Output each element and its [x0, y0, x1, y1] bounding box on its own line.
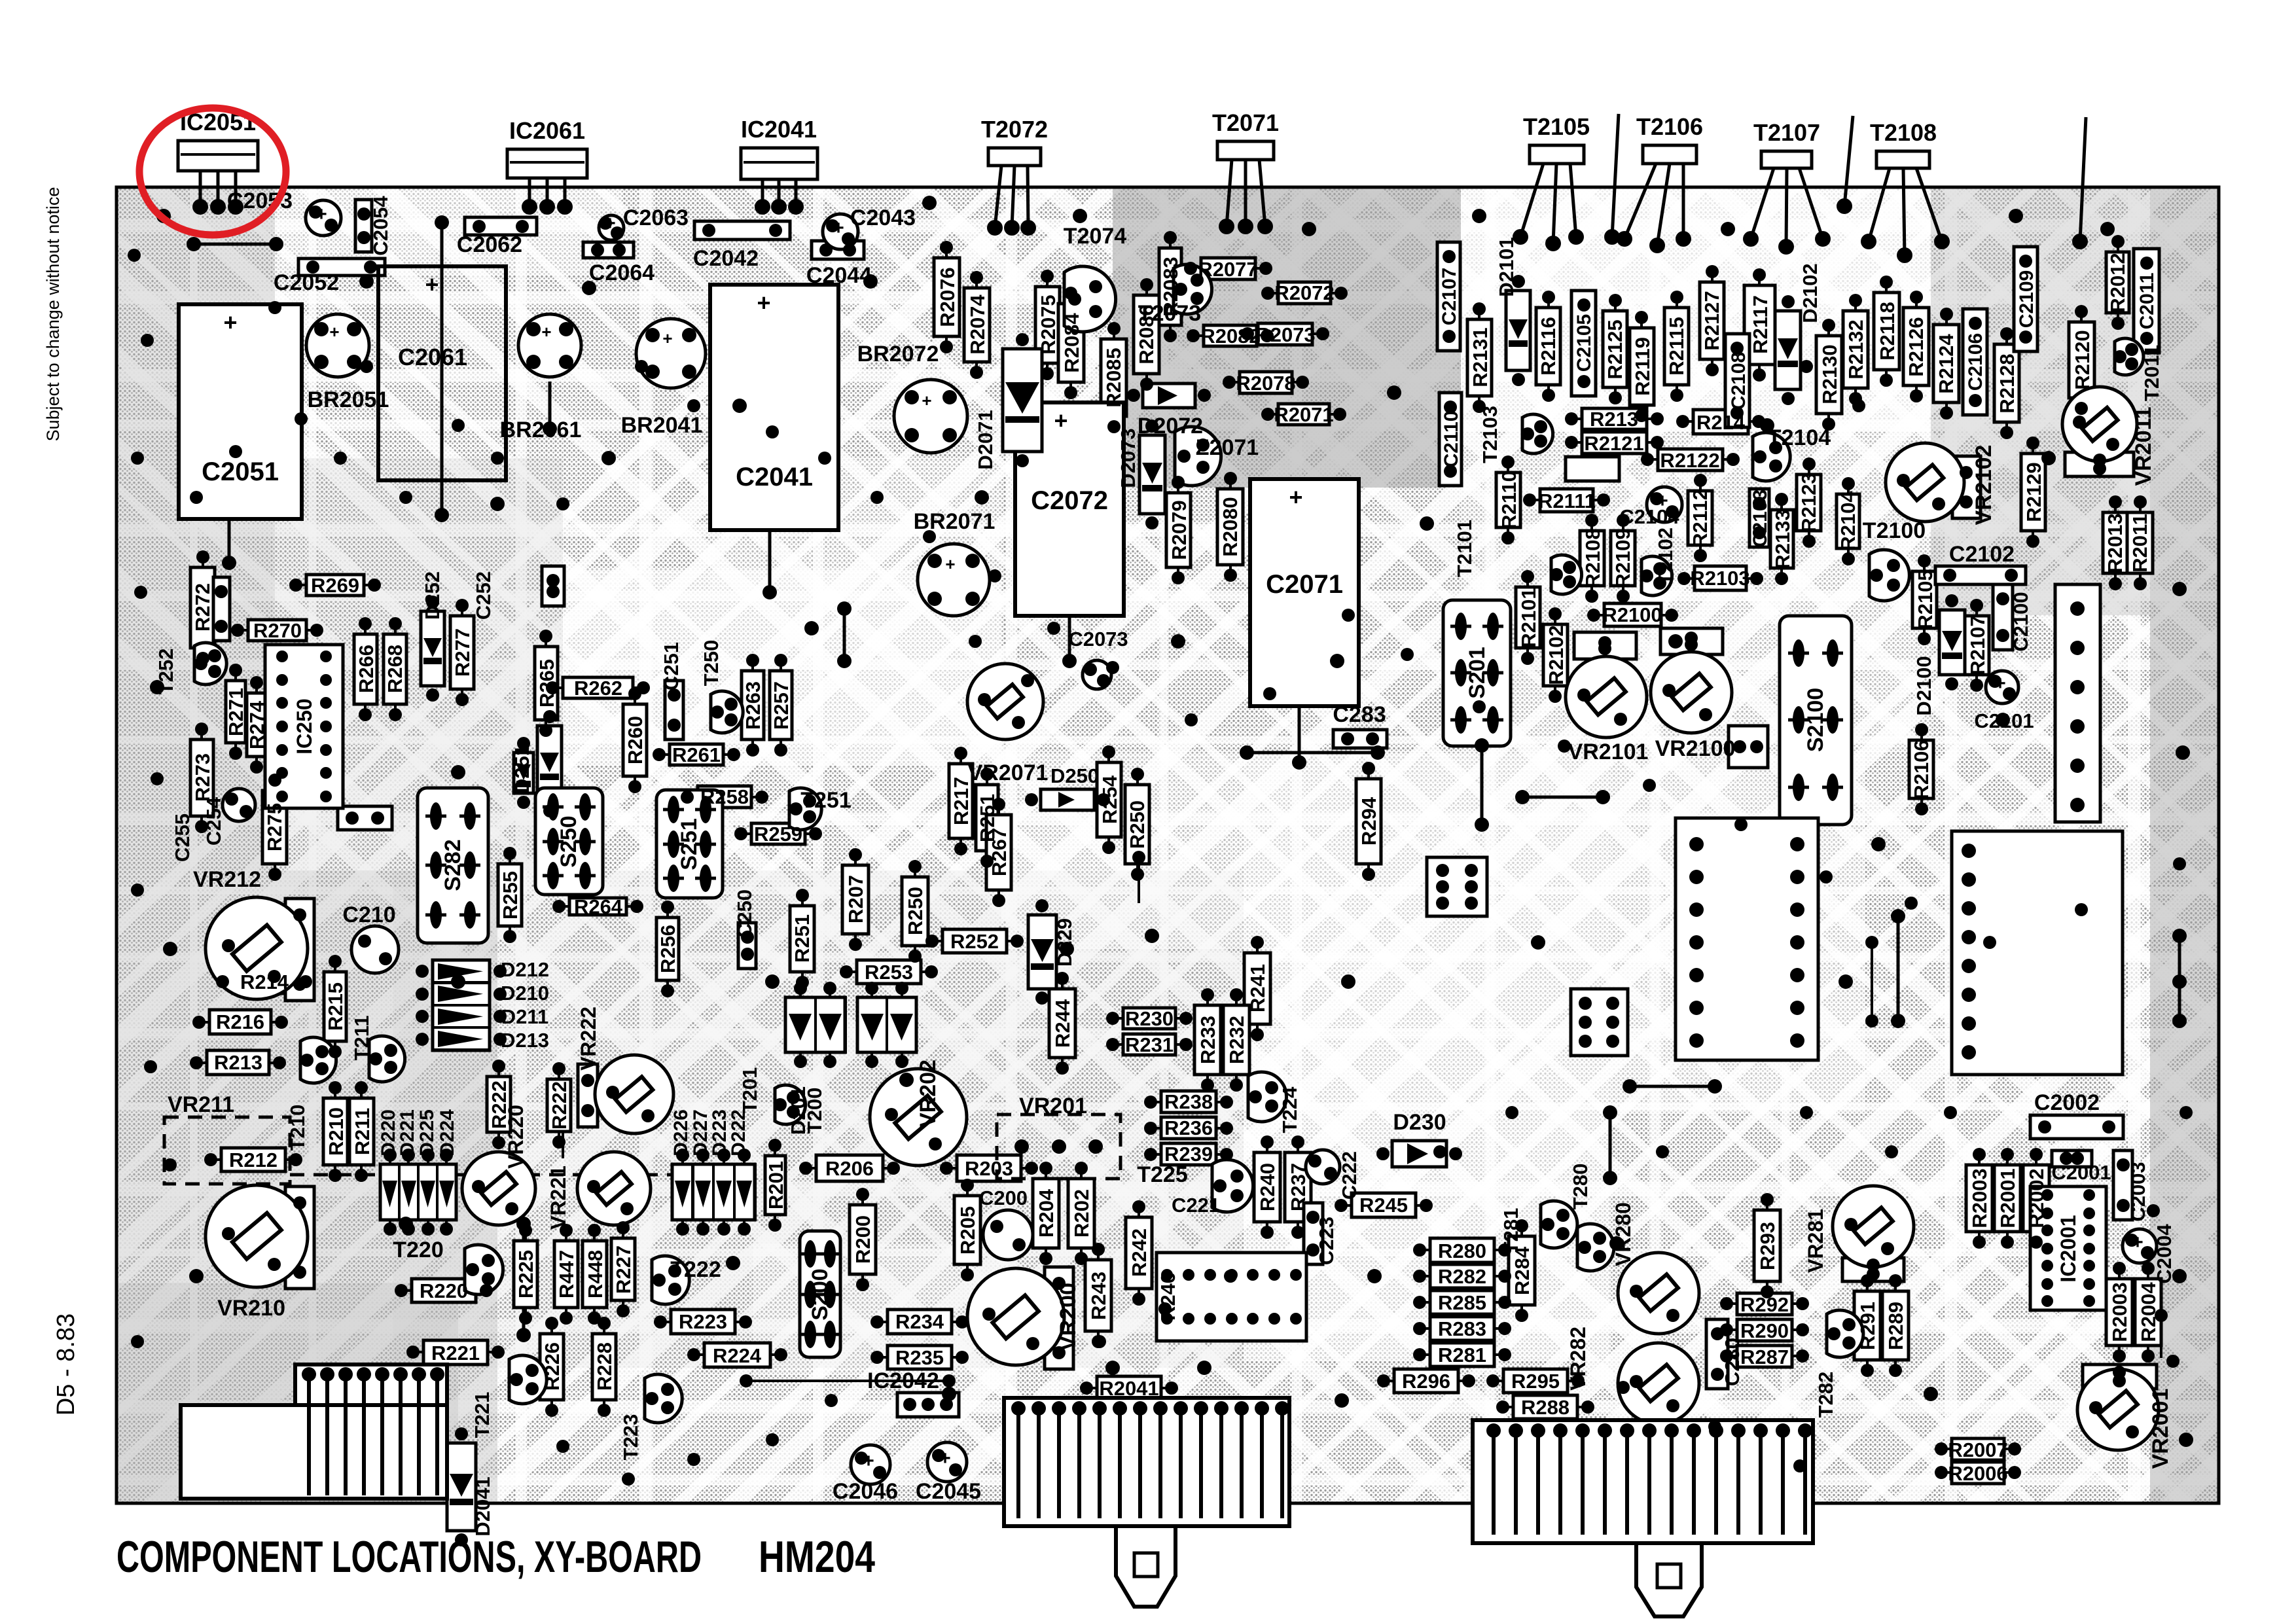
svg-text:+: + — [757, 289, 770, 316]
svg-text:R227: R227 — [612, 1245, 635, 1294]
svg-text:D222: D222 — [728, 1109, 749, 1156]
svg-text:T222: T222 — [670, 1257, 721, 1282]
svg-text:C2102: C2102 — [1949, 542, 2015, 567]
svg-text:R2084: R2084 — [1060, 313, 1083, 373]
svg-text:T2072: T2072 — [981, 116, 1048, 143]
svg-text:C200: C200 — [979, 1186, 1028, 1209]
svg-text:D2073: D2073 — [1117, 428, 1139, 488]
svg-text:+: + — [2132, 1232, 2144, 1253]
svg-text:R2119: R2119 — [1631, 337, 1654, 396]
svg-text:T282: T282 — [1814, 1372, 1837, 1418]
svg-text:R288: R288 — [1521, 1396, 1570, 1419]
svg-text:C2004: C2004 — [2153, 1224, 2176, 1284]
svg-text:T2101: T2101 — [1453, 520, 1476, 577]
svg-text:R246: R246 — [1157, 1272, 1179, 1321]
svg-text:+: + — [833, 217, 844, 239]
svg-text:VR200: VR200 — [1056, 1283, 1081, 1351]
svg-text:+: + — [863, 1450, 874, 1472]
svg-text:VR2011: VR2011 — [2131, 407, 2156, 486]
svg-text:R2007: R2007 — [1948, 1438, 2007, 1461]
svg-text:S200: S200 — [808, 1268, 833, 1320]
svg-text:T2071: T2071 — [1212, 109, 1279, 136]
svg-text:R213: R213 — [214, 1051, 262, 1074]
svg-text:R214: R214 — [240, 971, 289, 993]
svg-text:T2011: T2011 — [2140, 345, 2163, 401]
svg-text:T2102: T2102 — [1654, 527, 1677, 585]
svg-text:R2079: R2079 — [1168, 500, 1191, 560]
svg-text:BR2041: BR2041 — [621, 413, 703, 438]
svg-text:R2078: R2078 — [1236, 372, 1295, 395]
svg-text:C2011: C2011 — [2136, 273, 2158, 330]
svg-text:R201: R201 — [764, 1161, 787, 1209]
svg-text:C283: C283 — [1333, 702, 1386, 727]
svg-text:R268: R268 — [384, 645, 406, 693]
svg-text:R212: R212 — [229, 1149, 278, 1171]
svg-text:T2105: T2105 — [1523, 113, 1590, 140]
svg-text:R245: R245 — [1359, 1194, 1408, 1217]
svg-text:R2128: R2128 — [1996, 353, 2018, 413]
svg-text:R202: R202 — [1070, 1189, 1093, 1238]
svg-text:C2110: C2110 — [1441, 411, 1462, 468]
svg-text:+: + — [425, 271, 439, 298]
svg-text:C2071: C2071 — [1266, 570, 1343, 599]
svg-text:BR2051: BR2051 — [308, 387, 389, 412]
svg-text:R2101: R2101 — [1517, 588, 1540, 647]
svg-text:C2062: C2062 — [457, 232, 522, 257]
svg-text:R214: R214 — [1696, 411, 1746, 434]
svg-text:R243: R243 — [1087, 1272, 1110, 1320]
svg-text:R2076: R2076 — [936, 267, 959, 327]
svg-text:R287: R287 — [1740, 1346, 1789, 1368]
svg-text:R290: R290 — [1740, 1319, 1789, 1342]
svg-text:R230: R230 — [1125, 1007, 1174, 1030]
svg-text:VR202: VR202 — [916, 1060, 941, 1128]
svg-text:T210: T210 — [286, 1105, 309, 1151]
svg-text:C2103: C2103 — [1749, 490, 1771, 547]
svg-text:R2108: R2108 — [1581, 528, 1604, 588]
svg-text:C2002: C2002 — [2034, 1090, 2100, 1115]
svg-text:R2124: R2124 — [1935, 334, 1958, 394]
svg-text:C2052: C2052 — [274, 270, 339, 295]
svg-text:VR281: VR281 — [1804, 1209, 1827, 1273]
svg-text:C2061: C2061 — [398, 344, 467, 370]
svg-text:C2041: C2041 — [736, 463, 813, 491]
svg-text:R2082: R2082 — [1200, 325, 1260, 348]
svg-text:C280: C280 — [1721, 1338, 1744, 1386]
svg-text:T224: T224 — [1278, 1086, 1301, 1133]
svg-text:BR2061: BR2061 — [500, 418, 582, 442]
svg-text:R262: R262 — [574, 677, 622, 700]
svg-text:R237: R237 — [1287, 1163, 1310, 1211]
svg-text:R242: R242 — [1128, 1228, 1151, 1277]
svg-text:R2002: R2002 — [2025, 1168, 2048, 1228]
svg-text:T221: T221 — [471, 1392, 493, 1438]
svg-text:R270: R270 — [253, 619, 302, 642]
svg-text:+: + — [939, 1448, 951, 1469]
svg-text:T281: T281 — [1499, 1208, 1522, 1255]
svg-text:VR280: VR280 — [1611, 1202, 1635, 1266]
svg-text:C2045: C2045 — [916, 1479, 981, 1504]
svg-text:R203: R203 — [965, 1157, 1013, 1180]
svg-text:VR211: VR211 — [168, 1092, 234, 1117]
svg-text:+: + — [945, 554, 955, 574]
svg-text:R273: R273 — [191, 753, 214, 802]
svg-text:R264: R264 — [574, 895, 623, 918]
svg-text:C2003: C2003 — [2126, 1162, 2149, 1221]
svg-text:VR212: VR212 — [193, 867, 261, 892]
svg-text:R2001: R2001 — [1996, 1168, 2019, 1228]
svg-text:T2107: T2107 — [1753, 119, 1820, 146]
svg-text:R2132: R2132 — [1844, 319, 1867, 379]
svg-text:COMPONENT LOCATIONS, XY-BOARD: COMPONENT LOCATIONS, XY-BOARD — [117, 1532, 702, 1582]
svg-text:R2121: R2121 — [1584, 432, 1643, 455]
svg-text:C2109: C2109 — [2016, 270, 2037, 328]
svg-text:R2117: R2117 — [1749, 295, 1772, 354]
svg-text:C2108: C2108 — [1728, 352, 1749, 410]
svg-text:R2074: R2074 — [966, 294, 989, 355]
svg-text:T200: T200 — [803, 1088, 826, 1134]
svg-text:R251: R251 — [791, 914, 814, 963]
svg-text:R2112: R2112 — [1689, 489, 1712, 548]
svg-text:R2012: R2012 — [2106, 253, 2129, 312]
svg-text:R289: R289 — [1884, 1302, 1907, 1350]
svg-text:R2102: R2102 — [1545, 625, 1568, 685]
svg-text:R292: R292 — [1740, 1293, 1789, 1316]
svg-text:T2103: T2103 — [1479, 406, 1501, 463]
svg-text:T2100: T2100 — [1863, 518, 1926, 543]
svg-text:R254: R254 — [1098, 775, 1121, 824]
svg-text:R282: R282 — [1438, 1265, 1486, 1288]
svg-text:R204: R204 — [1035, 1188, 1058, 1238]
svg-text:D2102: D2102 — [1799, 263, 1821, 323]
svg-text:VR2102: VR2102 — [1971, 445, 1996, 526]
svg-text:R267: R267 — [988, 828, 1011, 876]
svg-text:C2063: C2063 — [623, 205, 689, 230]
svg-text:C2054: C2054 — [369, 196, 392, 256]
svg-text:R2110: R2110 — [1498, 471, 1520, 529]
svg-text:R258: R258 — [700, 785, 749, 808]
svg-text:R2120: R2120 — [2071, 330, 2094, 389]
svg-text:+: + — [922, 391, 931, 410]
svg-text:C2042: C2042 — [693, 246, 759, 271]
svg-text:R2109: R2109 — [1611, 528, 1634, 588]
svg-text:R228: R228 — [593, 1342, 616, 1391]
svg-text:C2043: C2043 — [850, 205, 916, 230]
svg-text:+: + — [604, 213, 616, 234]
svg-text:R283: R283 — [1438, 1317, 1486, 1340]
svg-text:R2085: R2085 — [1102, 348, 1125, 407]
svg-text:C252: C252 — [472, 571, 495, 620]
svg-text:R241: R241 — [1246, 964, 1269, 1012]
svg-text:+: + — [541, 322, 551, 342]
svg-text:R255: R255 — [499, 871, 522, 919]
svg-text:D226: D226 — [670, 1109, 692, 1156]
svg-text:R222: R222 — [548, 1081, 571, 1130]
svg-text:R2072: R2072 — [1274, 281, 1334, 304]
svg-text:R256: R256 — [656, 925, 679, 973]
svg-text:R233: R233 — [1196, 1016, 1219, 1064]
svg-text:R225: R225 — [514, 1250, 537, 1298]
svg-text:D252: D252 — [421, 571, 444, 620]
svg-text:R293: R293 — [1756, 1222, 1779, 1270]
svg-text:+: + — [1054, 407, 1067, 434]
svg-text:R269: R269 — [311, 574, 359, 597]
svg-text:+: + — [315, 204, 327, 225]
svg-text:R207: R207 — [844, 875, 867, 923]
svg-text:T2074: T2074 — [1064, 224, 1126, 249]
svg-text:C251: C251 — [660, 642, 683, 690]
svg-text:D2041: D2041 — [471, 1476, 494, 1536]
svg-text:R2122: R2122 — [1660, 449, 1719, 472]
svg-text:C2107: C2107 — [1439, 268, 1460, 325]
svg-text:T2104: T2104 — [1768, 425, 1831, 450]
svg-text:R2118: R2118 — [1876, 302, 1899, 361]
svg-text:R266: R266 — [355, 645, 378, 693]
svg-text:R2080: R2080 — [1219, 497, 1242, 556]
svg-text:R448: R448 — [584, 1250, 607, 1298]
svg-text:+: + — [662, 329, 672, 348]
svg-text:R2100: R2100 — [1602, 603, 1662, 626]
svg-text:R206: R206 — [825, 1157, 874, 1180]
svg-text:R215: R215 — [324, 982, 347, 1031]
svg-text:R2115: R2115 — [1665, 317, 1688, 376]
svg-text:T2106: T2106 — [1636, 113, 1703, 140]
svg-text:+: + — [1994, 673, 2006, 694]
svg-text:D250: D250 — [1050, 764, 1099, 787]
svg-text:S2100: S2100 — [1803, 688, 1828, 752]
svg-text:R224: R224 — [713, 1344, 762, 1367]
svg-text:R252: R252 — [950, 930, 999, 953]
svg-text:+: + — [223, 309, 237, 336]
svg-text:C223: C223 — [1315, 1217, 1338, 1265]
svg-text:IC2061: IC2061 — [509, 117, 585, 144]
svg-text:R2041: R2041 — [1099, 1377, 1158, 1400]
svg-text:R2129: R2129 — [2022, 462, 2045, 522]
svg-text:C250: C250 — [733, 889, 756, 938]
svg-text:D211: D211 — [501, 1005, 548, 1028]
svg-text:S282: S282 — [440, 839, 465, 891]
svg-text:C222: C222 — [1338, 1151, 1361, 1200]
svg-text:+: + — [1289, 484, 1302, 510]
svg-text:VR222: VR222 — [577, 1007, 600, 1071]
svg-text:R231: R231 — [1125, 1033, 1174, 1056]
svg-text:R2111: R2111 — [1538, 490, 1596, 512]
svg-text:R260: R260 — [624, 716, 647, 764]
svg-text:R2103: R2103 — [1690, 567, 1749, 590]
svg-text:R213: R213 — [1590, 408, 1638, 431]
svg-text:R2077: R2077 — [1198, 258, 1257, 281]
svg-text:C2101: C2101 — [1974, 709, 2034, 732]
svg-text:R447: R447 — [555, 1250, 578, 1298]
svg-text:T251: T251 — [800, 788, 852, 813]
svg-text:R232: R232 — [1225, 1016, 1248, 1064]
svg-text:R240: R240 — [1256, 1163, 1279, 1211]
svg-text:R294: R294 — [1357, 796, 1380, 846]
svg-text:D251: D251 — [511, 745, 533, 793]
svg-text:S251: S251 — [677, 818, 702, 870]
svg-text:R2116: R2116 — [1537, 317, 1560, 376]
svg-text:R221: R221 — [431, 1342, 480, 1364]
svg-text:T225: T225 — [1137, 1162, 1188, 1187]
svg-text:R205: R205 — [956, 1206, 979, 1255]
svg-text:VR2001: VR2001 — [2148, 1389, 2173, 1469]
svg-text:IC2001: IC2001 — [2056, 1215, 2080, 1282]
svg-text:R250: R250 — [1126, 800, 1149, 849]
svg-text:R2071: R2071 — [1274, 403, 1333, 426]
svg-text:VR2101: VR2101 — [1568, 740, 1649, 764]
svg-text:R216: R216 — [216, 1010, 264, 1033]
svg-text:C2104: C2104 — [1619, 505, 1679, 528]
svg-text:C221: C221 — [1172, 1194, 1220, 1217]
svg-text:R2013: R2013 — [2104, 513, 2126, 573]
svg-text:R2125: R2125 — [1604, 319, 1626, 379]
svg-text:R272: R272 — [191, 583, 214, 632]
svg-text:VR201: VR201 — [1019, 1094, 1087, 1118]
svg-text:VR282: VR282 — [1566, 1327, 1590, 1391]
svg-text:R2123: R2123 — [1797, 473, 1820, 532]
svg-text:R2127: R2127 — [1700, 291, 1723, 350]
svg-text:R238: R238 — [1164, 1090, 1213, 1113]
svg-text:T250: T250 — [700, 640, 723, 687]
svg-text:R210: R210 — [325, 1107, 348, 1156]
svg-text:R200: R200 — [852, 1215, 874, 1264]
svg-text:D2100: D2100 — [1912, 656, 1935, 715]
svg-text:R2106: R2106 — [1910, 740, 1933, 799]
svg-text:C210: C210 — [342, 902, 395, 927]
svg-text:R2105: R2105 — [1914, 569, 1937, 629]
svg-text:D5 - 8.83: D5 - 8.83 — [52, 1313, 80, 1416]
svg-text:R257: R257 — [770, 681, 793, 730]
svg-text:R281: R281 — [1438, 1344, 1486, 1366]
svg-text:T2073: T2073 — [1138, 301, 1201, 326]
svg-text:C2044: C2044 — [806, 263, 872, 288]
svg-text:D212: D212 — [501, 958, 549, 981]
svg-text:IC2041: IC2041 — [741, 116, 817, 143]
svg-text:VR2100: VR2100 — [1655, 736, 1736, 761]
svg-text:R253: R253 — [865, 961, 913, 984]
svg-text:R259: R259 — [754, 823, 802, 846]
svg-text:R2075: R2075 — [1037, 294, 1060, 354]
svg-text:D213: D213 — [501, 1029, 549, 1052]
svg-text:Subject to change without noti: Subject to change without notice — [43, 187, 63, 442]
svg-text:C2051: C2051 — [202, 457, 279, 486]
svg-text:VR2071: VR2071 — [968, 760, 1049, 785]
svg-text:R2107: R2107 — [1966, 615, 1989, 675]
svg-text:C2072: C2072 — [1031, 486, 1108, 515]
svg-text:R2133: R2133 — [1771, 509, 1794, 569]
svg-text:R250: R250 — [904, 887, 927, 935]
svg-text:R295: R295 — [1511, 1370, 1560, 1393]
svg-text:T223: T223 — [619, 1414, 642, 1461]
svg-text:R277: R277 — [451, 628, 474, 677]
svg-text:T220: T220 — [393, 1238, 444, 1262]
svg-text:R274: R274 — [245, 700, 268, 749]
svg-text:R223: R223 — [679, 1310, 727, 1333]
svg-text:BR2071: BR2071 — [914, 509, 996, 534]
svg-text:C255: C255 — [171, 813, 194, 862]
svg-text:R2130: R2130 — [1818, 344, 1841, 404]
svg-text:R261: R261 — [672, 743, 721, 766]
svg-text:IC2042: IC2042 — [867, 1368, 939, 1393]
svg-text:R2003: R2003 — [1968, 1168, 1991, 1228]
svg-text:BR2072: BR2072 — [857, 342, 939, 366]
svg-text:R2004: R2004 — [2137, 1282, 2160, 1342]
svg-text:R296: R296 — [1402, 1370, 1450, 1393]
svg-text:R2126: R2126 — [1905, 317, 1928, 376]
svg-text:R235: R235 — [895, 1346, 944, 1369]
svg-text:D2101: D2101 — [1495, 237, 1518, 296]
svg-text:R234: R234 — [895, 1310, 944, 1333]
svg-text:VR220: VR220 — [504, 1105, 528, 1169]
svg-text:T280: T280 — [1569, 1164, 1592, 1210]
svg-text:S250: S250 — [556, 815, 581, 867]
svg-text:R271: R271 — [224, 688, 247, 736]
svg-text:R291: R291 — [1856, 1302, 1879, 1350]
svg-text:C2105: C2105 — [1573, 314, 1595, 372]
svg-text:D225: D225 — [416, 1109, 438, 1156]
svg-text:D230: D230 — [1393, 1110, 1446, 1135]
svg-text:IC250: IC250 — [293, 698, 316, 754]
svg-text:C2073: C2073 — [1068, 628, 1128, 651]
svg-text:C2046: C2046 — [833, 1479, 898, 1504]
svg-text:R236: R236 — [1164, 1116, 1213, 1139]
svg-text:T201: T201 — [738, 1067, 761, 1114]
svg-text:+: + — [329, 322, 339, 342]
svg-text:D2072: D2072 — [1138, 414, 1203, 438]
svg-text:C2100: C2100 — [2009, 592, 2032, 651]
svg-text:D229: D229 — [1053, 918, 1076, 967]
svg-text:R275: R275 — [263, 803, 286, 851]
svg-text:R2131: R2131 — [1469, 327, 1492, 387]
svg-text:S201: S201 — [1465, 647, 1490, 698]
svg-text:R2011: R2011 — [2128, 514, 2151, 573]
svg-text:R2003: R2003 — [2108, 1282, 2131, 1342]
svg-text:T2108: T2108 — [1870, 119, 1937, 146]
svg-text:T252: T252 — [154, 649, 177, 695]
svg-text:R2073: R2073 — [1255, 323, 1315, 346]
svg-text:VR221: VR221 — [547, 1166, 570, 1230]
svg-text:C254: C254 — [202, 796, 225, 846]
svg-text:R226: R226 — [541, 1342, 564, 1391]
svg-text:R280: R280 — [1438, 1240, 1486, 1262]
svg-text:R265: R265 — [535, 659, 558, 707]
svg-text:D210: D210 — [501, 982, 549, 1005]
svg-text:HM204: HM204 — [759, 1532, 875, 1582]
svg-text:C2106: C2106 — [1965, 333, 1986, 391]
svg-text:R211: R211 — [351, 1108, 374, 1155]
svg-text:Z2071: Z2071 — [1196, 435, 1259, 460]
svg-text:C2064: C2064 — [589, 260, 655, 285]
svg-text:D221: D221 — [397, 1109, 418, 1156]
svg-text:R285: R285 — [1438, 1291, 1486, 1314]
svg-text:T211: T211 — [350, 1016, 373, 1061]
svg-text:VR210: VR210 — [217, 1296, 285, 1321]
svg-text:D224: D224 — [437, 1109, 458, 1156]
svg-text:C2001: C2001 — [2051, 1161, 2111, 1184]
svg-text:R2104: R2104 — [1837, 491, 1859, 551]
svg-text:D2071: D2071 — [974, 410, 997, 469]
svg-text:R244: R244 — [1051, 999, 1074, 1048]
svg-text:R263: R263 — [742, 681, 764, 730]
svg-text:R2006: R2006 — [1948, 1462, 2007, 1485]
svg-text:R220: R220 — [420, 1279, 468, 1302]
